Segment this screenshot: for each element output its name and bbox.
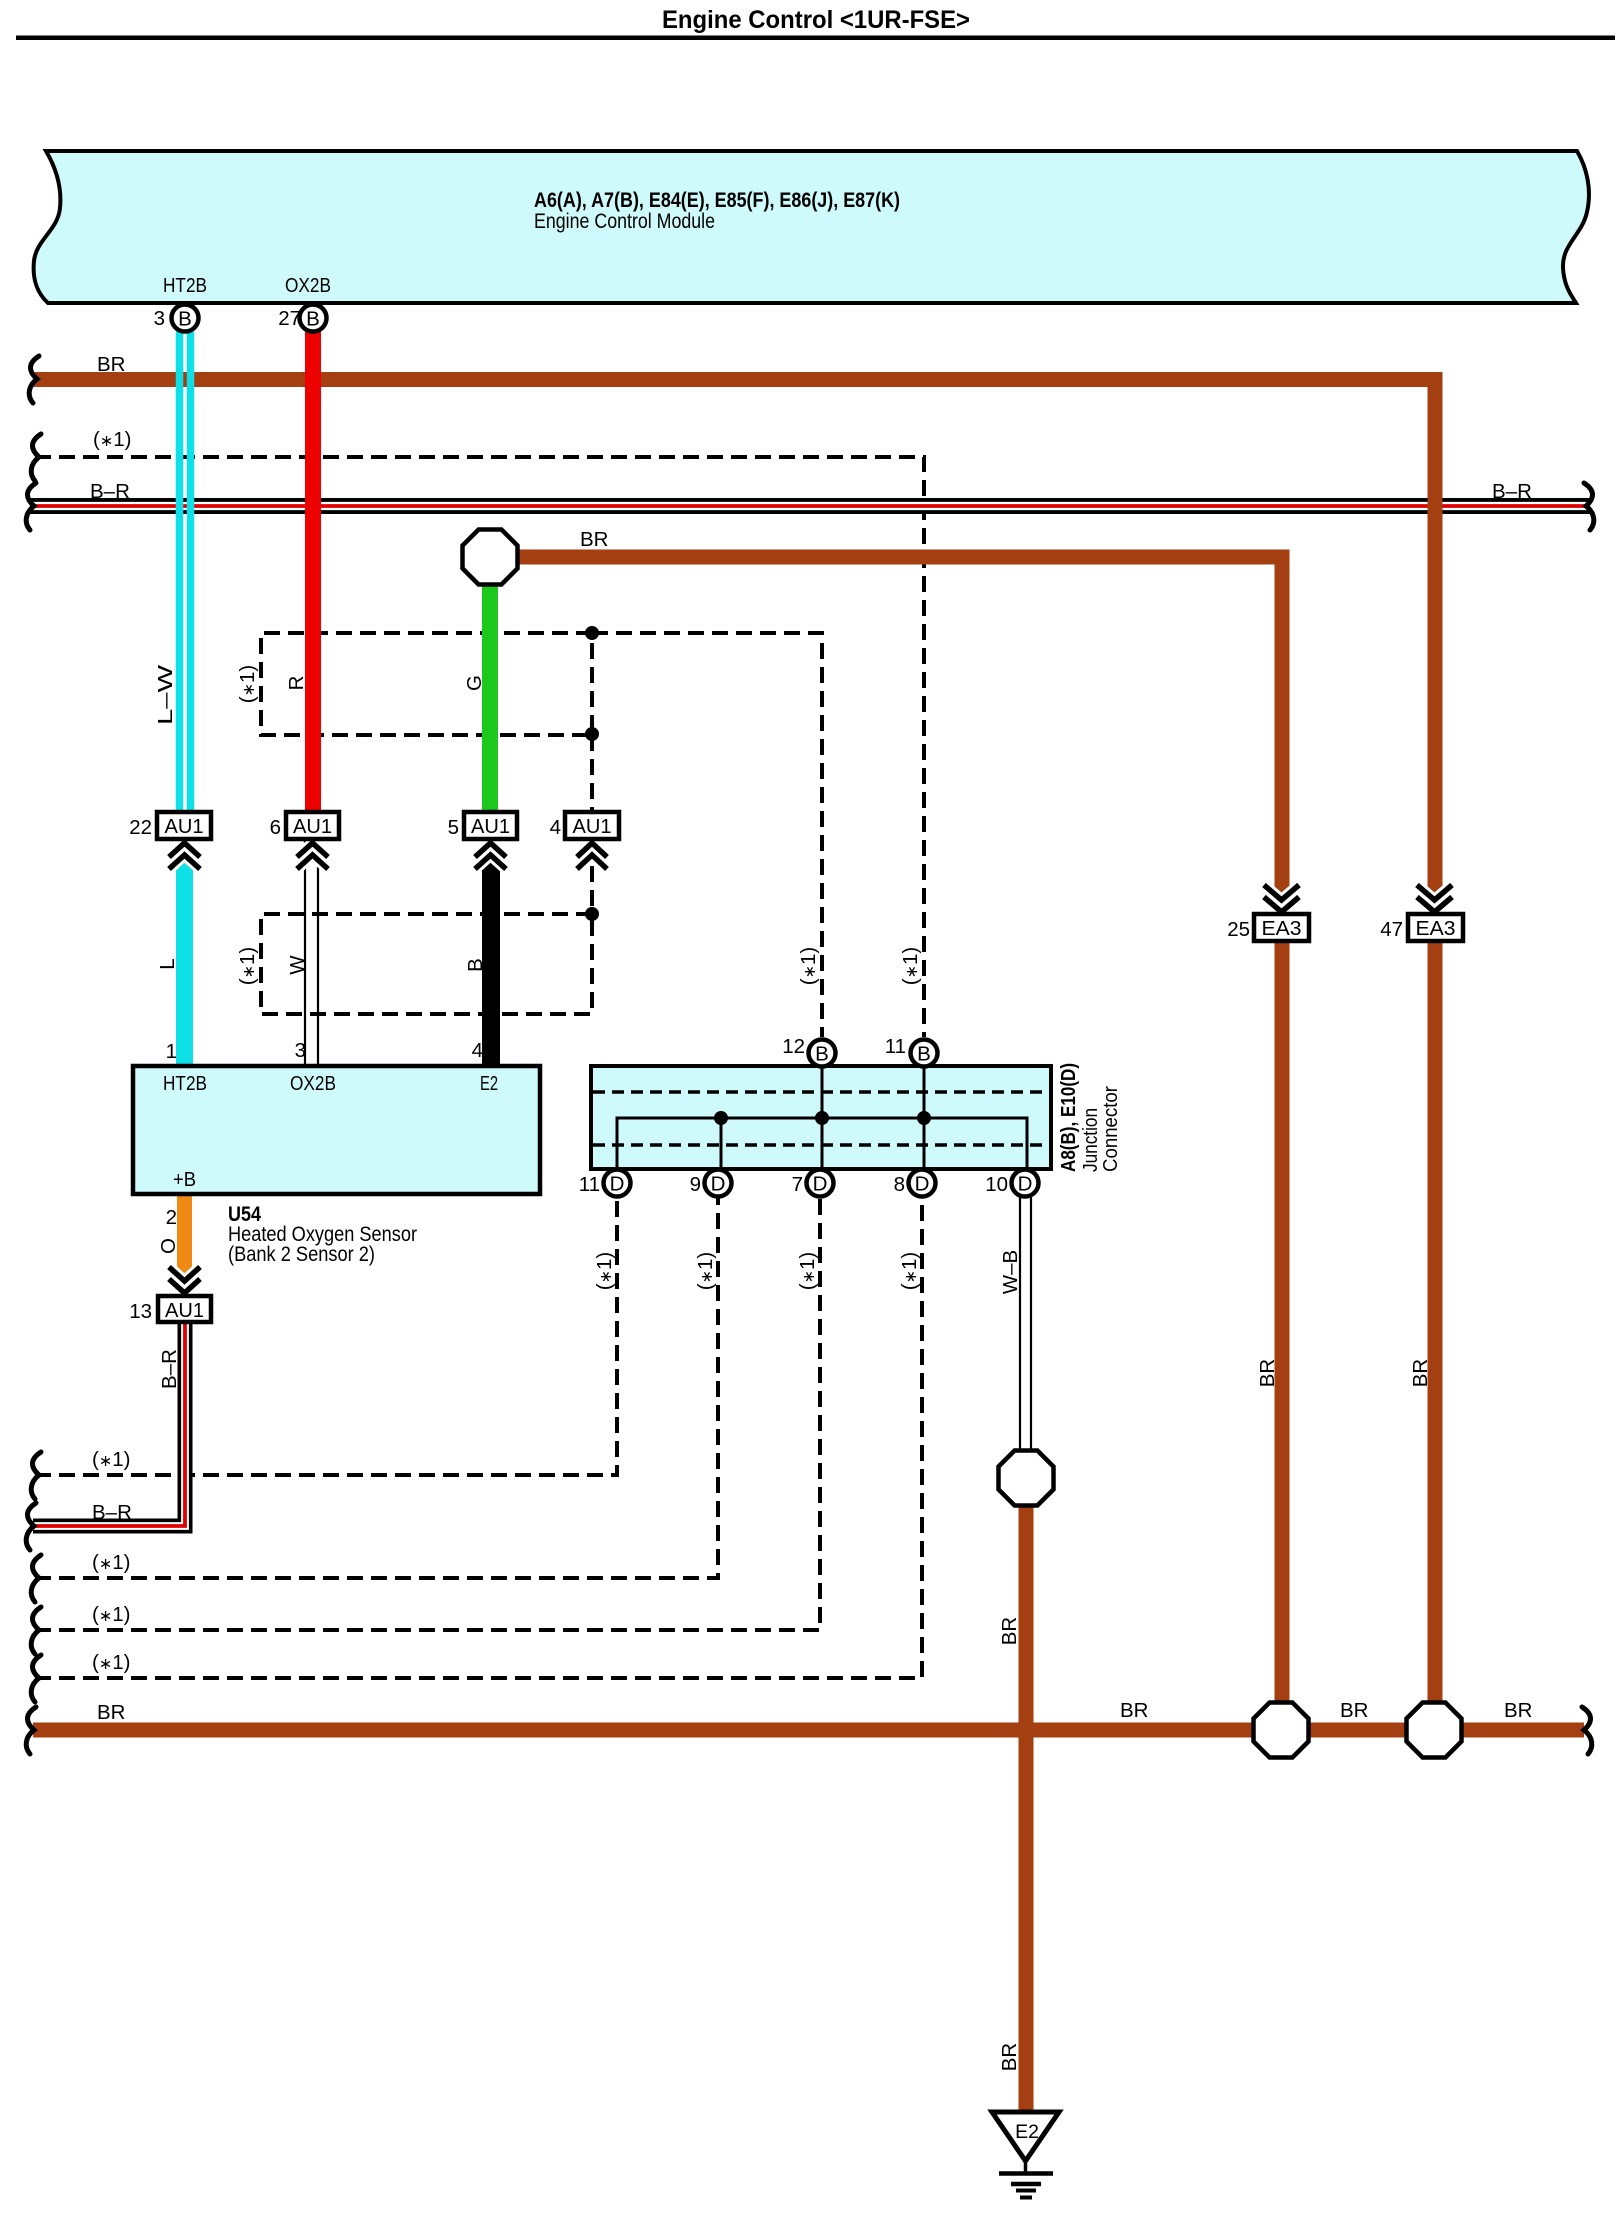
svg-text:D: D xyxy=(1018,1173,1033,1196)
svg-text:10: 10 xyxy=(985,1173,1008,1196)
U54 sensor box xyxy=(133,1066,540,1194)
svg-text:B: B xyxy=(306,308,320,331)
svg-text:HT2B: HT2B xyxy=(163,274,207,297)
svg-text:AU1: AU1 xyxy=(165,1300,204,1322)
svg-text:AU1: AU1 xyxy=(293,816,332,838)
svg-text:BR: BR xyxy=(1340,1699,1368,1722)
octagon J2 xyxy=(999,1451,1054,1506)
squiggle left y506 xyxy=(26,483,36,530)
svg-text:4: 4 xyxy=(472,1039,483,1062)
junction pin 9 D xyxy=(705,1170,732,1197)
svg-text:27: 27 xyxy=(278,307,301,330)
svg-text:BR: BR xyxy=(1256,1359,1279,1387)
svg-text:Engine Control Module: Engine Control Module xyxy=(534,210,715,233)
svg-text:13: 13 xyxy=(129,1300,152,1323)
svg-text:L–W: L–W xyxy=(154,664,177,725)
wire dashed (*1) row y1678 to pin 8D xyxy=(35,1196,922,1678)
junction pin 8 D xyxy=(909,1170,936,1197)
junction bus dots xyxy=(714,1111,728,1125)
squiggle left y1730 xyxy=(26,1707,36,1754)
wire BR from octagon J1 to EA3 25 xyxy=(516,557,1282,914)
title rule xyxy=(16,36,1615,41)
squiggle left y457 xyxy=(31,434,41,481)
connector 6 AU1 xyxy=(286,812,339,839)
svg-text:B–R: B–R xyxy=(1492,480,1532,503)
svg-text:Engine Control <1UR-FSE>: Engine Control <1UR-FSE> xyxy=(662,6,970,34)
wire dashed (*1) row y1578 to pin 9D xyxy=(35,1196,718,1578)
wire G green from octagon J1 to 5AU1 xyxy=(482,580,498,812)
wire BR vertical octagon J2 to ground E2 xyxy=(1019,1503,1034,2112)
chevron up 6AU1 xyxy=(297,843,328,869)
svg-text:D: D xyxy=(915,1173,930,1196)
svg-text:7: 7 xyxy=(792,1173,803,1196)
junction internal dashed rows xyxy=(593,1090,1049,1094)
chevron down above 13AU1 xyxy=(169,1267,200,1293)
svg-text:8: 8 xyxy=(894,1173,905,1196)
node C dot xyxy=(585,907,599,921)
svg-text:OX2B: OX2B xyxy=(290,1072,336,1095)
svg-text:BR: BR xyxy=(1409,1359,1432,1387)
svg-text:W–B: W–B xyxy=(999,1250,1022,1294)
chevron up 5AU1 xyxy=(475,843,506,869)
svg-text:A8(B), E10(D): A8(B), E10(D) xyxy=(1058,1063,1080,1172)
svg-text:HT2B: HT2B xyxy=(163,1072,207,1095)
svg-text:G: G xyxy=(463,675,486,691)
wire L-W striped cyan from pin3 to 22AU1 xyxy=(176,320,184,812)
ECM pin circle 3 B xyxy=(172,305,199,332)
wire B-R from 13AU1 down and left xyxy=(33,1322,185,1526)
svg-text:12: 12 xyxy=(782,1035,805,1058)
wire dashed (*1) row y457 to pin 11B xyxy=(35,457,924,1037)
svg-text:5: 5 xyxy=(448,816,459,839)
octagon J1 xyxy=(463,530,518,585)
svg-text:+B: +B xyxy=(173,1168,196,1191)
ECM module box A6(A) etc xyxy=(34,151,1589,303)
junction pin 7 D xyxy=(807,1170,834,1197)
svg-text:Connector: Connector xyxy=(1100,1086,1122,1172)
svg-text:E2: E2 xyxy=(1015,2121,1039,2143)
chevron up 4AU1 xyxy=(577,843,607,869)
wire BR bottom horizontal xyxy=(33,1723,1255,1738)
svg-text:EA3: EA3 xyxy=(1416,918,1456,940)
node B dot xyxy=(585,727,599,741)
squiggle left y1678 xyxy=(31,1655,41,1702)
svg-text:B–R: B–R xyxy=(90,480,130,503)
svg-text:AU1: AU1 xyxy=(165,816,204,838)
chevron down above 25 EA3 xyxy=(1264,885,1299,912)
connector 5 AU1 xyxy=(464,812,517,839)
connector 22 AU1 xyxy=(157,812,211,839)
svg-text:BR: BR xyxy=(580,528,608,551)
svg-text:(Bank 2 Sensor 2): (Bank 2 Sensor 2) xyxy=(228,1243,375,1266)
svg-text:B–R: B–R xyxy=(92,1501,132,1524)
ground E2 xyxy=(992,2112,1059,2161)
svg-text:A6(A), A7(B), E84(E), E85(F),: A6(A), A7(B), E84(E), E85(F), E86(J), E8… xyxy=(534,189,900,212)
squiggle left y1578 xyxy=(31,1555,41,1602)
squiggle left y379 xyxy=(29,356,39,403)
squiggle right y506 xyxy=(1584,483,1594,530)
wire dashed (*1) row y1475 to pin 11D xyxy=(35,1196,617,1475)
wire BR below EA3 25 to octagon xyxy=(1275,941,1290,1703)
svg-text:2: 2 xyxy=(166,1206,177,1229)
svg-text:BR: BR xyxy=(97,1701,125,1724)
node A dot xyxy=(585,626,599,640)
svg-text:E2: E2 xyxy=(480,1072,498,1095)
svg-text:11: 11 xyxy=(579,1173,600,1196)
wire dashed 4AU1 to node C xyxy=(590,842,594,914)
connector 47 EA3 xyxy=(1408,914,1463,941)
svg-text:BR: BR xyxy=(1504,1699,1532,1722)
svg-text:D: D xyxy=(813,1173,828,1196)
svg-text:9: 9 xyxy=(690,1173,701,1196)
wire W white 6AU1 to U54 pin3 xyxy=(304,841,306,1066)
svg-text:25: 25 xyxy=(1227,918,1250,941)
connector 25 EA3 xyxy=(1254,914,1309,941)
svg-text:6: 6 xyxy=(270,816,281,839)
squiggle left y1475 xyxy=(31,1452,41,1499)
squiggle left y1630 xyxy=(31,1607,41,1654)
junction pin 12 B xyxy=(809,1040,836,1067)
wire W-B from pin 10D to octagon J2 xyxy=(1019,1185,1021,1453)
ECM pin circle 27 B xyxy=(300,305,327,332)
DASHED-LAYER xyxy=(35,457,924,1678)
svg-text:4: 4 xyxy=(550,816,561,839)
svg-text:L: L xyxy=(156,958,179,969)
svg-text:D: D xyxy=(711,1173,726,1196)
dashed box 2 (*1) W/B xyxy=(261,914,592,1014)
wire L solid cyan 22AU1 to U54 pin1 xyxy=(176,852,193,1066)
junction internal bus xyxy=(617,1118,1027,1169)
svg-text:3: 3 xyxy=(154,307,165,330)
svg-text:B: B xyxy=(464,958,487,972)
octagon J4 xyxy=(1407,1703,1462,1758)
svg-text:22: 22 xyxy=(129,816,152,839)
wire BR below EA3 47 to octagon xyxy=(1428,941,1443,1703)
svg-text:W: W xyxy=(286,955,309,975)
squiggle left y1526 xyxy=(26,1503,36,1550)
wire B-R horizontal row y505 xyxy=(30,498,1590,514)
wire R red from pin27 to 6AU1 xyxy=(305,320,321,812)
junction pin 11 B xyxy=(911,1040,938,1067)
svg-text:BR: BR xyxy=(97,353,125,376)
dashed box 1 (*1) R/G xyxy=(261,633,592,735)
wire B black 5AU1 to U54 pin4 xyxy=(482,852,500,1066)
svg-text:BR: BR xyxy=(998,2043,1021,2071)
svg-text:D: D xyxy=(610,1173,625,1196)
svg-text:11: 11 xyxy=(885,1035,906,1058)
wire BR top horizontal to EA3 47 xyxy=(33,380,1435,915)
wire dashed (*1) row y1630 to pin 7D xyxy=(35,1196,820,1630)
wire O orange U54 pin2 to 13AU1 xyxy=(177,1195,192,1283)
junction connector box A8(B) E10(D) xyxy=(591,1066,1051,1169)
wire dashed from node A to pin 12B xyxy=(592,633,822,1037)
svg-text:R: R xyxy=(285,676,308,691)
chevron down above 47 EA3 xyxy=(1417,885,1452,912)
svg-text:47: 47 xyxy=(1380,918,1403,941)
svg-text:B: B xyxy=(815,1043,829,1066)
svg-text:B: B xyxy=(178,308,192,331)
svg-text:B: B xyxy=(917,1043,931,1066)
junction pin 11 D xyxy=(604,1170,631,1197)
svg-text:O: O xyxy=(157,1238,180,1254)
svg-text:3: 3 xyxy=(295,1039,306,1062)
squiggle right y1730 xyxy=(1582,1707,1592,1754)
octagon J3 xyxy=(1254,1703,1309,1758)
connector 13 AU1 xyxy=(158,1296,211,1322)
junction pin 10 D xyxy=(1012,1170,1039,1197)
svg-text:AU1: AU1 xyxy=(573,816,612,838)
svg-text:B–R: B–R xyxy=(158,1349,181,1389)
chevron up 22AU1 xyxy=(169,843,200,869)
svg-text:1: 1 xyxy=(166,1040,177,1063)
connector 4 AU1 xyxy=(565,812,619,839)
wire dashed node A to node B xyxy=(590,735,594,812)
svg-text:EA3: EA3 xyxy=(1262,918,1302,940)
svg-text:BR: BR xyxy=(998,1617,1021,1645)
svg-text:Junction: Junction xyxy=(1080,1108,1102,1172)
svg-text:OX2B: OX2B xyxy=(285,274,331,297)
svg-text:AU1: AU1 xyxy=(471,816,510,838)
svg-text:BR: BR xyxy=(1120,1699,1148,1722)
